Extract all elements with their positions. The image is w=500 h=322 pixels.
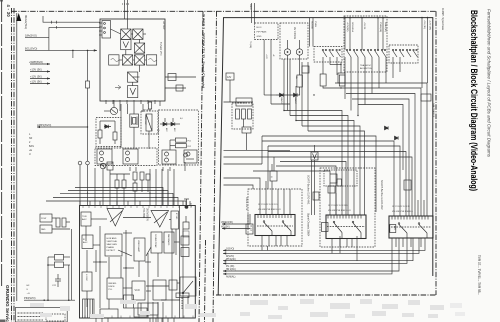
box sandcastle	[151, 232, 162, 253]
wire 18A riser	[48, 27, 50, 50]
mixer M3	[134, 43, 144, 53]
dashed switch box A	[314, 47, 342, 63]
svg-text:AMP1(SVO): AMP1(SVO)	[37, 123, 51, 127]
svg-text:PH/A(3K): PH/A(3K)	[226, 258, 236, 261]
value box a	[297, 75, 303, 87]
mixer M2	[133, 29, 143, 39]
supply wires right	[421, 18, 423, 88]
svg-text:MEGA(TEL): MEGA(TEL)	[24, 15, 28, 29]
bus line PG(3K)	[223, 238, 407, 263]
svg-text:GND: GND	[257, 36, 262, 38]
box 100nF a	[270, 171, 277, 181]
IC internal wires	[91, 218, 107, 220]
dashed box bottom	[46, 314, 65, 321]
box 100nF c	[328, 186, 335, 193]
nested wires above IC 5	[46, 201, 186, 206]
switch bank B	[346, 49, 386, 57]
page number 4-30	[6, 5, 11, 18]
IC Q4 group	[184, 150, 197, 163]
svg-text:ZF 38,9: ZF 38,9	[143, 110, 151, 112]
title bold vertical	[469, 10, 479, 191]
caption italic vertical	[487, 9, 492, 158]
resistor R121	[140, 172, 144, 180]
wire band above IC	[94, 168, 96, 205]
svg-text:VID GND CVB RGB B G: VID GND CVB RGB B G	[392, 211, 413, 213]
svg-text:VID GND CVB RGB B G R: VID GND CVB RGB B G R	[328, 210, 351, 212]
nest wire 2	[290, 116, 348, 216]
main IC video processor U200	[80, 206, 196, 319]
svg-text:H OSC: H OSC	[85, 274, 87, 281]
svg-text:P02: P02	[188, 146, 191, 148]
chain section divider B	[213, 11, 217, 322]
power pad boxes	[40, 214, 52, 222]
I/O part outer box	[218, 18, 433, 295]
IC Q1 group	[97, 149, 112, 164]
tuner internal wires	[127, 19, 129, 29]
wire bus y157	[224, 156, 275, 158]
transistor T101	[110, 107, 117, 114]
svg-text:PIP FBAS: PIP FBAS	[257, 31, 267, 34]
test point TP2	[86, 161, 90, 165]
scart2 drop to bus	[339, 239, 341, 254]
tuner bottom pin wires	[105, 100, 107, 104]
scart1 switch b	[282, 221, 284, 223]
tuner connector box	[102, 21, 111, 39]
mixer M5	[134, 55, 144, 65]
IC sub box c2	[181, 248, 189, 257]
pin label column	[29, 133, 34, 156]
chain section divider A2 (lower)	[205, 240, 206, 322]
diode D203	[385, 126, 389, 130]
svg-text:AUM(AL): AUM(AL)	[226, 276, 236, 279]
wire cinch down	[287, 55, 289, 110]
svg-text:CVBS: CVBS	[314, 21, 316, 27]
coupling box 2	[176, 85, 183, 91]
svg-text:AFC: AFC	[165, 128, 168, 132]
scart2 caption	[380, 180, 383, 210]
nest wire 5	[308, 131, 365, 215]
box coinc det	[134, 238, 145, 261]
bottom left box	[15, 308, 67, 322]
wire cluster links	[134, 180, 136, 183]
capacitor C141	[55, 262, 64, 268]
svg-text:21 pol: 21 pol	[250, 225, 252, 231]
scart3 switch a	[398, 223, 400, 225]
nest right 1	[335, 83, 427, 216]
wire transistor base	[104, 110, 110, 112]
cluster right of IC	[183, 222, 189, 229]
svg-text:+12V(3K): +12V(3K)	[346, 22, 348, 32]
antenna label MEGA/TEL	[24, 15, 28, 29]
wire pads to IC	[52, 217, 56, 219]
svg-text:BAS: BAS	[29, 145, 34, 148]
video det box	[146, 114, 152, 131]
wire PIN(SVO)	[24, 299, 75, 301]
varactor V box	[128, 86, 138, 98]
scart2 label box	[322, 223, 329, 232]
nest left verticals	[261, 136, 263, 164]
svg-text:VIDEO AMP: VIDEO AMP	[137, 240, 140, 253]
box 10k	[242, 127, 251, 133]
svg-text:PIN(SVO): PIN(SVO)	[24, 296, 36, 300]
IF extra labels	[143, 110, 184, 133]
wire bus y150	[224, 149, 291, 151]
svg-text:12V: 12V	[227, 76, 232, 79]
coupling box	[168, 74, 176, 81]
tuner AGC box	[81, 212, 91, 226]
switch bank A	[322, 49, 340, 57]
filter box	[146, 55, 156, 65]
svg-text:ENCE: ENCE	[109, 286, 116, 288]
arrow symbol left	[115, 85, 121, 89]
dashed box ext connector	[255, 23, 279, 40]
nested wires above IC 4	[53, 198, 178, 206]
nest wire 6	[262, 136, 376, 212]
svg-text:+5V 2K: +5V 2K	[363, 22, 365, 30]
resistor R122	[133, 183, 137, 191]
bottom box internals	[18, 312, 44, 314]
tuner section label	[202, 14, 206, 88]
wire caps	[48, 256, 55, 258]
scart2 pin labels	[328, 205, 351, 212]
box vco	[132, 281, 145, 300]
svg-text:19 17 20 21 15 13 11 9: 19 17 20 21 15 13 11 9	[328, 205, 347, 207]
box ref divider	[153, 280, 166, 300]
label box supply	[421, 94, 431, 101]
IC internal vertical buses	[179, 206, 181, 319]
svg-text:NF: NF	[29, 137, 33, 140]
dashed box transistor array	[95, 148, 157, 166]
svg-text:+12V (3K): +12V (3K)	[30, 74, 42, 78]
svg-text:TUN: TUN	[82, 216, 87, 218]
wire AGC vertical	[87, 50, 89, 81]
crystal hatched	[83, 299, 95, 318]
svg-text:+12V (3K): +12V (3K)	[30, 79, 42, 83]
wire stub divider	[159, 101, 161, 106]
v box mid	[311, 152, 318, 160]
capacitor C22	[55, 278, 61, 280]
chain line left inner	[13, 8, 15, 322]
svg-text:+13V (3K): +13V (3K)	[30, 67, 42, 71]
page edge line	[1, 0, 3, 286]
wire crystal	[133, 104, 135, 114]
dashed box scart1	[248, 189, 302, 246]
box 100nF d	[404, 180, 411, 190]
wire IF to demod	[142, 104, 144, 112]
tuner right pin wires	[165, 76, 196, 78]
svg-text:HR 2(3C): HR 2(3C)	[226, 269, 236, 271]
scart2 feed wires	[329, 183, 331, 215]
nest right 3	[346, 94, 415, 217]
scart2 inner dashed	[324, 170, 357, 186]
IC wire h0	[93, 261, 107, 263]
cinch stems	[287, 40, 289, 49]
IC Q2 group	[123, 149, 138, 164]
switch feed wires	[344, 18, 346, 50]
box 1nF	[338, 73, 345, 83]
antenna feed wires	[124, 0, 126, 19]
diode D201	[276, 93, 300, 97]
svg-text:SOUND TRAP: SOUND TRAP	[154, 234, 157, 248]
svg-text:AFC: AFC	[173, 128, 176, 132]
wire +12V (3K)	[30, 78, 50, 80]
chain line bottom	[216, 294, 436, 296]
scart1 feed wires	[259, 189, 261, 215]
svg-text:TUNER 2 - OPTION (TU 33 - Sign: TUNER 2 - OPTION (TU 33 - Signal-Chassis…	[202, 14, 206, 88]
nest wire 10	[274, 157, 412, 216]
IC sub box c	[181, 236, 189, 245]
dashed box IF det	[141, 111, 158, 134]
box buffer	[107, 162, 113, 170]
IC wire v1	[95, 250, 97, 272]
svg-text:FM DEMOD: FM DEMOD	[167, 234, 169, 246]
box phase det	[169, 280, 177, 290]
nest mid 1	[280, 162, 346, 216]
svg-text:PG (3K): PG (3K)	[226, 266, 235, 268]
video amp A2	[151, 211, 169, 228]
IC wire h1	[93, 244, 100, 246]
dashed switch box C	[389, 45, 418, 63]
IC sub box b	[134, 308, 147, 317]
svg-text:Blockschaltplan / Block Circui: Blockschaltplan / Block Circuit Diagram …	[469, 10, 479, 191]
scart2 bottom stubs	[331, 239, 333, 254]
tuner right pin wire 2	[165, 87, 186, 89]
wire IC out video	[222, 223, 250, 225]
scart1 caption	[307, 175, 310, 237]
bus line AUM(AL)	[223, 238, 392, 274]
svg-text:DIGIVISION: DIGIVISION	[146, 208, 148, 221]
svg-text:SAW GEN: SAW GEN	[107, 243, 118, 246]
svg-text:I/O-PART - Signal-Chassis: I/O-PART - Signal-Chassis	[441, 8, 445, 30]
IC sub box d	[183, 231, 189, 237]
nest wire 8	[268, 146, 400, 216]
svg-text:TU(3K): TU(3K)	[249, 41, 251, 48]
scart3 switch b	[418, 223, 420, 225]
svg-text:VERTICAL: VERTICAL	[107, 240, 118, 243]
box reference	[107, 278, 123, 299]
IC pin ticks	[83, 206, 193, 319]
scart2 switch b	[352, 221, 354, 223]
crystal X1	[130, 114, 139, 127]
svg-text:VIDEO(3K): VIDEO(3K)	[221, 221, 233, 224]
box vertical out	[105, 234, 122, 256]
scart3 feed wires	[417, 200, 419, 216]
resistor R113	[175, 144, 186, 148]
svg-text:1n: 1n	[271, 177, 273, 179]
scart connector X1	[255, 215, 295, 236]
svg-text:10u: 10u	[295, 76, 297, 79]
chain line right	[435, 11, 437, 295]
nest mid 2	[276, 166, 336, 215]
nest wire 9	[268, 152, 406, 217]
scart1 drop to bus	[267, 246, 269, 250]
scart3 label box	[390, 225, 396, 233]
dashed box scart2	[320, 168, 375, 247]
wire caps above IC	[116, 188, 118, 205]
wire 12V down	[229, 80, 231, 102]
nested wires above IC 2	[68, 191, 168, 206]
antenna wire	[43, 16, 100, 22]
svg-text:4 - 30: 4 - 30	[6, 5, 11, 18]
value box b	[320, 74, 326, 86]
IC sub box a	[124, 295, 134, 308]
solid left border	[16, 13, 18, 301]
svg-text:AGC: AGC	[83, 241, 88, 244]
capacitor C122	[122, 180, 126, 188]
switch stems down	[350, 57, 352, 111]
resistor R120	[133, 172, 137, 180]
diode D204	[395, 136, 399, 140]
svg-text:TVR 37... TVR 51... TVR 55...: TVR 37... TVR 51... TVR 55...	[477, 255, 481, 295]
cinch jack J1	[284, 49, 290, 55]
svg-text:CVBS(3K): CVBS(3K)	[379, 22, 381, 32]
nest wire 7	[262, 141, 394, 216]
svg-text:PHASE: PHASE	[107, 246, 115, 249]
box peak clamp	[236, 98, 252, 106]
transistor T102	[100, 163, 106, 169]
caption scart left	[245, 197, 247, 211]
wire bottom links	[43, 299, 45, 301]
wire down from AMP node	[87, 127, 89, 161]
scart2 dashed mid	[327, 226, 365, 228]
box if agc	[82, 235, 93, 249]
wire box 1nF	[340, 62, 342, 73]
svg-text:SOUND: SOUND	[311, 21, 313, 29]
array pin stubs	[129, 167, 131, 171]
value box c	[339, 75, 345, 86]
box divider out	[100, 309, 118, 318]
registration arrow top left	[16, 13, 21, 21]
nest wire 3	[296, 121, 354, 216]
nested wires above IC 3	[60, 193, 173, 205]
scart3 dashed mid	[391, 226, 431, 228]
wire tuner drop	[120, 104, 122, 148]
chain line top	[12, 10, 437, 12]
scart connector X2	[326, 215, 366, 239]
resistor R130	[176, 293, 189, 298]
svg-text:AGC: AGC	[82, 218, 87, 221]
svg-text:TUNER VHF: TUNER VHF	[159, 42, 162, 56]
dashed box AFC	[159, 110, 199, 165]
svg-text:FBAS(3K): FBAS(3K)	[384, 22, 387, 32]
scart3 pin labels	[392, 206, 413, 213]
IC pin stubs top	[79, 201, 81, 205]
bus line HR2(3C)	[223, 238, 399, 271]
osc box	[109, 55, 119, 65]
scart connector X3	[389, 216, 433, 238]
bus line PHA(3K)	[223, 238, 413, 261]
svg-text:+5W8(SVO): +5W8(SVO)	[29, 60, 43, 64]
box h driver	[82, 272, 92, 291]
svg-text:+E: +E	[29, 149, 32, 152]
svg-text:U: U	[29, 153, 31, 156]
scart1 bottom stubs	[261, 236, 263, 251]
wire scart1 feed up	[265, 181, 267, 189]
resistor R112	[175, 138, 186, 142]
bus line G(SVO)	[223, 238, 425, 250]
svg-text:BCL(SVO): BCL(SVO)	[25, 46, 37, 50]
long bus wires through IC	[149, 169, 151, 206]
wire group down	[243, 119, 245, 127]
wire AFC	[160, 123, 163, 125]
svg-text:VIDEO DET: VIDEO DET	[144, 115, 146, 126]
switch box filter	[180, 277, 196, 296]
wire ext to bus	[264, 94, 276, 96]
if box mid	[128, 72, 138, 82]
nest mid 5	[224, 185, 254, 189]
nested wires above IC 1	[75, 188, 163, 206]
svg-text:Fernsehbildröhren und Schaltpl: Fernsehbildröhren und Schaltpläne / Layo…	[487, 9, 492, 158]
scart1 pin labels	[258, 204, 281, 211]
wire R104 down	[149, 109, 151, 111]
nest mid 3	[253, 171, 330, 174]
svg-text:BA157: BA157	[294, 98, 297, 105]
svg-text:IF VID: IF VID	[175, 213, 177, 220]
wire A stem bend	[323, 86, 340, 88]
svg-text:GRUNDIG Service: GRUNDIG Service	[5, 285, 10, 322]
input wires with labels	[309, 18, 311, 47]
svg-text:VCO: VCO	[135, 289, 140, 292]
test point TP1	[78, 161, 82, 165]
wire AMP1(SVO)	[37, 126, 88, 128]
page corner marks	[0, 320, 6, 322]
svg-text:AV CINCH: AV CINCH	[293, 27, 297, 39]
svg-text:SAA TDA BUS: SAA TDA BUS	[432, 103, 435, 118]
nest right 2	[340, 88, 421, 216]
video amp A1	[107, 209, 124, 227]
svg-text:BU 3: BU 3	[257, 27, 263, 29]
svg-text:Signal-Chassis 29504: Signal-Chassis 29504	[307, 213, 310, 237]
wire bus y164	[224, 163, 263, 165]
svg-text:G(SVO): G(SVO)	[226, 249, 234, 251]
diode D110	[163, 122, 167, 126]
ext box drop wires	[263, 40, 265, 96]
svg-text:AV-SWITCH: AV-SWITCH	[360, 67, 372, 70]
svg-text:+12V (3K): +12V (3K)	[429, 20, 431, 30]
svg-text:+12V: +12V	[265, 54, 267, 59]
capacitor C120	[146, 174, 150, 180]
top entry wires	[251, 3, 253, 23]
scart1 label box	[246, 224, 253, 234]
BLEED_START	[30, 299, 465, 319]
svg-text:REFER-: REFER-	[109, 283, 117, 285]
switch bank C	[392, 49, 417, 57]
GRUNDIG Service text	[5, 285, 10, 322]
svg-text:SCART-Buchse EURO-AV1: SCART-Buchse EURO-AV1	[307, 175, 310, 205]
junction dots above IC	[162, 190, 163, 191]
svg-text:DETECT: DETECT	[107, 250, 116, 252]
svg-text:19 17 20 21 15 13 11 9: 19 17 20 21 15 13 11 9	[258, 204, 277, 206]
switch A stems	[322, 57, 324, 74]
model list TVR	[477, 255, 481, 295]
wire +12V 2 (3K)	[30, 83, 50, 85]
bus line R(SVO)	[223, 238, 419, 253]
svg-text:SCART-Buchse EURO-AV2: SCART-Buchse EURO-AV2	[380, 180, 383, 210]
wire BCL(SVO)	[25, 49, 97, 51]
svg-text:PAD: PAD	[41, 228, 46, 231]
svg-text:SVHS: SVHS	[249, 4, 251, 10]
left-of-IC vertical wires	[71, 229, 73, 300]
svg-text:R(SVO): R(SVO)	[226, 256, 234, 258]
wire +13V (3K)	[30, 71, 50, 73]
resistor R103	[113, 132, 117, 140]
box small sw2	[313, 192, 319, 200]
svg-text:19 17 20 21 15 13 11: 19 17 20 21 15 13 11	[392, 206, 410, 208]
resistor R203	[248, 109, 252, 119]
chain section divider A	[199, 11, 203, 322]
box 12V	[226, 73, 234, 80]
chain line left outer	[11, 8, 13, 322]
